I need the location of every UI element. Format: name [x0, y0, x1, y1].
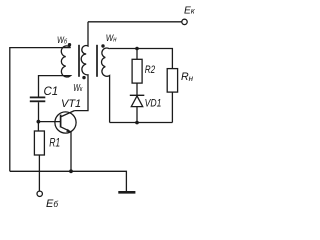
svg-text:Eк: Eк — [184, 5, 196, 16]
svg-text:Wн: Wн — [106, 33, 117, 43]
svg-text:VD1: VD1 — [145, 98, 162, 110]
svg-text:R1: R1 — [49, 138, 60, 150]
svg-text:Rн: Rн — [181, 71, 194, 83]
svg-text:C1: C1 — [44, 86, 59, 98]
svg-text:VT1: VT1 — [61, 98, 81, 110]
svg-text:R2: R2 — [145, 64, 155, 76]
svg-text:Wк: Wк — [73, 83, 83, 94]
svg-text:Eб: Eб — [46, 198, 58, 210]
svg-text:Wб: Wб — [57, 35, 68, 45]
